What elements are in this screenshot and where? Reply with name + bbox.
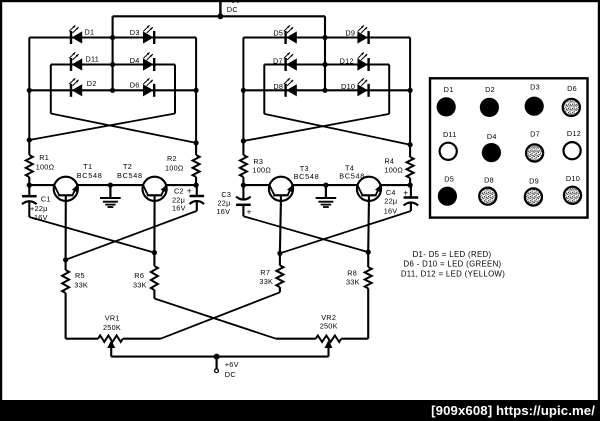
- svg-text:D11, D12 = LED (YELLOW): D11, D12 = LED (YELLOW): [401, 269, 505, 278]
- svg-text:D3: D3: [530, 83, 540, 92]
- svg-text:BC548: BC548: [117, 171, 143, 180]
- wire T2 to R2 node: [166, 184, 197, 186]
- resistor R3: [240, 141, 271, 185]
- svg-text:33K: 33K: [346, 278, 360, 287]
- LED D9: [345, 25, 368, 44]
- svg-text:D9: D9: [529, 177, 539, 186]
- LED D2: [69, 78, 96, 97]
- node R4 top: [408, 142, 413, 147]
- node R2 top: [194, 140, 199, 145]
- svg-text:16V: 16V: [172, 203, 186, 212]
- wire R4 cathode rail: [409, 38, 411, 145]
- wire R3 node to T3: [243, 184, 270, 186]
- node R1 bottom: [27, 183, 32, 188]
- svg-text:D4: D4: [487, 132, 497, 141]
- transistor T1: [54, 162, 103, 201]
- svg-text:D2: D2: [87, 79, 97, 88]
- wire R6 to VR2 diagonal: [154, 299, 315, 339]
- svg-text:100Ω: 100Ω: [384, 166, 403, 175]
- transistor T3: [269, 164, 320, 201]
- node left anode rail dots: [110, 35, 115, 93]
- wire row D11-D4: [51, 63, 175, 65]
- node R3 top: [241, 138, 246, 143]
- svg-text:D7: D7: [273, 56, 283, 65]
- wire D4 cross diagonal to R1 rail: [29, 114, 175, 141]
- legend D10 (green): [564, 174, 581, 204]
- svg-text:D8: D8: [484, 175, 494, 184]
- svg-text:D8: D8: [273, 82, 283, 91]
- resistor R8: [346, 250, 372, 339]
- svg-text:+: +: [403, 188, 408, 198]
- svg-text:D10: D10: [566, 174, 580, 183]
- legend D7 (green): [526, 129, 543, 161]
- legend D6 (green): [563, 84, 580, 116]
- wire T4 base lead: [367, 195, 370, 252]
- svg-text:33K: 33K: [133, 281, 147, 290]
- svg-text:D5: D5: [444, 175, 454, 184]
- legend D8 (green): [479, 175, 496, 204]
- svg-text:BC548: BC548: [294, 172, 320, 181]
- svg-text:R7: R7: [260, 268, 270, 277]
- svg-text:C1: C1: [41, 195, 51, 204]
- +6V DC bottom terminal: [214, 354, 239, 379]
- svg-text:+6V: +6V: [225, 360, 239, 369]
- LED D4: [130, 52, 155, 71]
- wire left anode rail: [112, 16, 114, 90]
- svg-text:100Ω: 100Ω: [165, 164, 184, 173]
- LED D11: [69, 52, 99, 71]
- wire R1 node to T1: [29, 184, 55, 186]
- svg-text:D6: D6: [567, 84, 577, 93]
- svg-text:22μ: 22μ: [384, 196, 397, 205]
- legend D2 (red): [480, 85, 499, 117]
- legend D3 (red): [525, 83, 544, 116]
- svg-text:33K: 33K: [74, 281, 88, 290]
- svg-text:C2: C2: [174, 187, 184, 196]
- wire left cathode rail to R1: [28, 38, 30, 141]
- svg-text:250K: 250K: [103, 323, 121, 332]
- capacitor C4: [384, 185, 419, 215]
- legend note line 3: [401, 269, 505, 278]
- svg-text:BC548: BC548: [77, 171, 103, 180]
- wire D12 drop: [388, 65, 390, 114]
- legend note line 1: [413, 250, 492, 259]
- svg-text:C3: C3: [221, 190, 231, 199]
- resistor R5: [62, 257, 88, 339]
- node left rail at D2 row: [27, 88, 32, 93]
- svg-text:VR1: VR1: [105, 314, 120, 323]
- wire T4 to R4 node: [380, 184, 410, 186]
- legend D9 (green): [525, 177, 542, 206]
- +6V DC top terminal: [218, 0, 241, 19]
- wire T1 to T2 (emitters/ground): [77, 184, 144, 186]
- wire R3 cathode rail: [242, 38, 244, 142]
- svg-text:D12: D12: [567, 129, 581, 138]
- wire D12 cross diagonal to R3 rail: [243, 114, 389, 141]
- wire R2 cathode rail: [195, 38, 197, 143]
- legend D12 (yellow): [564, 129, 582, 159]
- wire D7 cross diagonal to R4 rail: [264, 114, 410, 145]
- legend note line 2: [403, 260, 501, 269]
- svg-text:R4: R4: [384, 157, 394, 166]
- wire row D7-D12: [264, 63, 389, 65]
- svg-text:D6 - D10 = LED (GREEN): D6 - D10 = LED (GREEN): [403, 260, 501, 269]
- svg-text:D3: D3: [130, 28, 140, 37]
- LED D6: [130, 78, 155, 97]
- svg-text:DC: DC: [225, 370, 236, 379]
- resistor R6: [133, 250, 158, 299]
- svg-text:16V: 16V: [384, 206, 398, 215]
- svg-text:R2: R2: [167, 154, 177, 163]
- capacitor C1: [22, 185, 51, 222]
- capacitor C3: [217, 185, 252, 216]
- capacitor C2: [172, 185, 204, 212]
- node R3 rail at D8 row: [241, 88, 246, 93]
- svg-text:+22μ: +22μ: [30, 204, 48, 213]
- LED D3: [130, 25, 154, 44]
- svg-text:100Ω: 100Ω: [36, 163, 55, 172]
- svg-text:33K: 33K: [259, 277, 273, 286]
- ground between T1 T2: [100, 183, 121, 208]
- resistor R1: [26, 140, 55, 185]
- potentiometer VR1: [98, 314, 123, 357]
- LED D12: [340, 52, 369, 71]
- wire T3 to T4 (emitters/ground): [292, 184, 358, 186]
- wire T1 base lead: [65, 195, 67, 259]
- svg-text:D12: D12: [340, 56, 354, 65]
- svg-text:D5: D5: [273, 28, 283, 37]
- svg-text:D1: D1: [85, 28, 95, 37]
- potentiometer VR2: [316, 313, 342, 357]
- node R2 bottom: [194, 183, 199, 188]
- svg-text:R8: R8: [347, 268, 357, 277]
- wire T2 base lead: [153, 195, 155, 252]
- transistor T2: [117, 162, 167, 201]
- node R3 bottom: [241, 183, 246, 188]
- node R1 top: [27, 137, 32, 142]
- legend D1 (red): [437, 85, 456, 117]
- wire VR2 to R8: [341, 338, 368, 340]
- LED D7: [273, 52, 297, 71]
- svg-text:+: +: [247, 206, 252, 216]
- resistor R4: [384, 145, 413, 185]
- svg-text:BC548: BC548: [339, 171, 365, 180]
- wire row D5-D9: [243, 36, 410, 38]
- wire C2 to T1 base diagonal: [66, 211, 197, 260]
- node R4 bottom: [408, 183, 413, 188]
- node R2 rail at D6 row: [194, 88, 199, 93]
- svg-text:D1- D5 = LED (RED): D1- D5 = LED (RED): [413, 250, 492, 259]
- LED D10: [341, 78, 369, 97]
- LED D1: [69, 25, 94, 44]
- wire VR1 to R7 diagonal: [123, 292, 280, 338]
- wire bottom supply rail: [111, 356, 328, 358]
- svg-text:D10: D10: [341, 82, 355, 91]
- wire C3 to T4 base diagonal: [243, 216, 368, 252]
- svg-text:D6: D6: [130, 81, 140, 90]
- ground between T3 T4: [316, 183, 337, 208]
- wire R5 to VR1: [66, 338, 99, 340]
- wire D4 drop: [174, 65, 176, 114]
- wire row D2-D6: [29, 89, 196, 91]
- svg-text:R1: R1: [39, 153, 49, 162]
- svg-text:D2: D2: [485, 85, 495, 94]
- svg-text:T2: T2: [123, 162, 132, 171]
- legend D5 (red): [438, 175, 457, 206]
- wire D11 drop: [50, 65, 52, 114]
- legend D4 (red): [482, 132, 501, 162]
- wire row D8-D10: [243, 89, 410, 91]
- svg-text:T1: T1: [83, 162, 92, 171]
- svg-text:R5: R5: [75, 271, 85, 280]
- resistor R7: [259, 251, 283, 293]
- svg-text:D11: D11: [443, 130, 457, 139]
- wire C1 to T2 base diagonal: [29, 217, 154, 253]
- svg-text:+: +: [187, 186, 192, 196]
- legend D11 (yellow): [440, 130, 457, 160]
- wire row D1-D3: [29, 36, 196, 38]
- svg-text:250K: 250K: [320, 321, 338, 330]
- wire T3 base lead: [280, 195, 281, 253]
- wire D7 drop: [263, 65, 265, 114]
- wire right anode rail: [324, 16, 326, 90]
- svg-text:D9: D9: [345, 28, 355, 37]
- svg-text:[909x608] https://upic.me/: [909x608] https://upic.me/: [431, 403, 595, 418]
- legend box: [430, 78, 588, 217]
- wire +6V bus: [113, 15, 325, 17]
- LED D5: [273, 25, 296, 44]
- node right anode rail dots: [322, 35, 327, 93]
- svg-text:100Ω: 100Ω: [252, 166, 271, 175]
- wire D11 cross diagonal to R2 rail: [51, 114, 196, 143]
- bottom watermark bar: [0, 400, 600, 421]
- transistor T4: [339, 164, 381, 201]
- svg-text:D1: D1: [444, 85, 454, 94]
- svg-text:D7: D7: [530, 129, 540, 138]
- resistor R2: [165, 143, 200, 185]
- svg-text:D11: D11: [86, 55, 100, 64]
- node R4 rail at D10 row: [408, 88, 413, 93]
- LED D8: [273, 78, 296, 97]
- svg-text:DC: DC: [227, 5, 238, 14]
- wire C4 to T3 base diagonal: [280, 211, 411, 253]
- svg-text:R6: R6: [134, 271, 144, 280]
- svg-text:D4: D4: [130, 56, 140, 65]
- svg-text:16V: 16V: [217, 207, 231, 216]
